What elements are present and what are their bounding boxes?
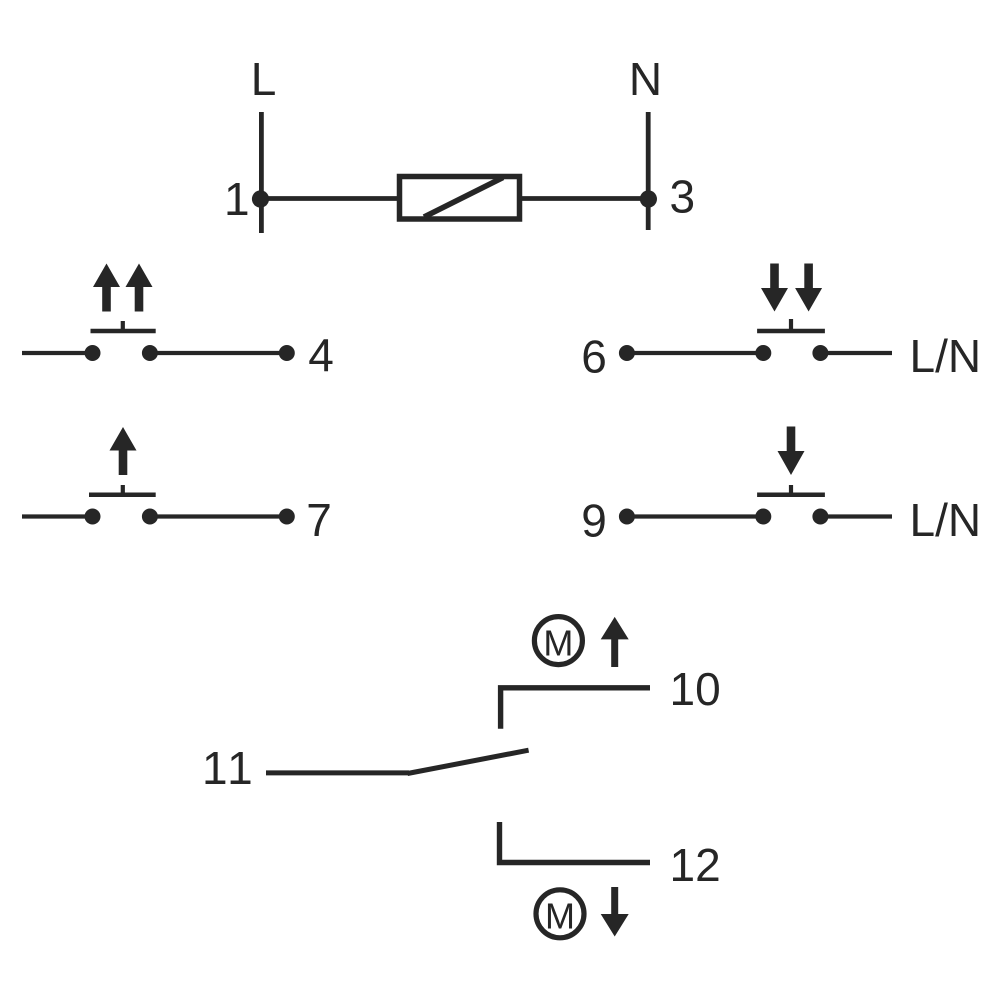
svg-text:N: N — [629, 53, 662, 105]
switch contact dot left (row 6) — [755, 345, 771, 361]
push-button actuator tick (row 4) — [121, 321, 125, 331]
svg-text:11: 11 — [202, 742, 256, 794]
motor M2 circle (down) — [536, 890, 584, 938]
svg-text:L/N: L/N — [910, 494, 982, 546]
svg-text:M: M — [543, 623, 573, 664]
svg-text:6: 6 — [581, 331, 607, 383]
terminal 9 dot — [619, 509, 635, 525]
up arrow (row 7) — [110, 427, 137, 475]
push-button actuator bar (row 7) — [89, 492, 156, 497]
push-button actuator bar (row 6) — [757, 329, 825, 334]
wire node1 to box — [260, 196, 398, 201]
down arrow 1 (row 6) — [761, 264, 788, 312]
wire left edge to switch (row 7) — [22, 514, 92, 518]
wire switch to L/N (row 9) — [820, 514, 892, 518]
svg-text:7: 7 — [306, 494, 332, 546]
svg-text:M: M — [545, 896, 575, 937]
wire left edge to switch (row 4) — [22, 351, 92, 355]
svg-text:4: 4 — [308, 329, 334, 381]
svg-text:3: 3 — [670, 171, 696, 223]
fuse/timer box F1 — [400, 177, 520, 220]
up arrow 1 (row 4) — [93, 264, 120, 312]
svg-text:9: 9 — [581, 495, 607, 547]
node 3 junction dot — [640, 190, 657, 207]
svg-text:L/N: L/N — [910, 330, 982, 382]
terminal 7 dot — [279, 509, 295, 525]
down arrow 2 (row 6) — [795, 264, 822, 312]
wire box to node3 — [521, 196, 649, 201]
switch contact dot left (row 7) — [85, 509, 101, 525]
wire switch to L/N (row 6) — [820, 351, 892, 355]
node 1 junction dot — [252, 190, 269, 207]
switch contact dot right (row 7) — [142, 509, 158, 525]
terminal 11 wire — [266, 770, 409, 775]
push-button actuator bar (row 9) — [757, 492, 825, 497]
up arrow (motor up) — [601, 617, 629, 667]
fuse/timer box diagonal — [424, 178, 503, 218]
wire N vertical — [646, 112, 651, 230]
motor M1 circle (up) — [534, 617, 582, 665]
wire terminal 6 to switch — [627, 351, 763, 355]
push-button actuator tick (row 6) — [789, 319, 793, 331]
terminal 12 wire elbow — [500, 822, 651, 863]
switch contact dot right (row 4) — [142, 345, 158, 361]
svg-text:12: 12 — [670, 839, 721, 891]
switch contact dot left (row 9) — [755, 509, 771, 525]
terminal 4 dot — [279, 345, 295, 361]
wire L vertical — [259, 112, 264, 233]
wire switch to terminal 4 — [150, 351, 287, 355]
down arrow (motor down) — [601, 887, 629, 937]
switch contact dot right (row 6) — [812, 345, 828, 361]
terminal 6 dot — [619, 345, 635, 361]
push-button actuator tick (row 7) — [121, 485, 125, 495]
switch blade (common 11) — [408, 750, 529, 773]
svg-text:L: L — [251, 53, 277, 105]
terminal 10 wire elbow — [501, 688, 650, 729]
svg-text:1: 1 — [224, 173, 250, 225]
wire switch to terminal 7 — [150, 514, 287, 518]
switch contact dot left (row 4) — [85, 345, 101, 361]
push-button actuator bar (row 4) — [91, 329, 156, 334]
wire terminal 9 to switch — [627, 514, 763, 518]
up arrow 2 (row 4) — [126, 264, 153, 312]
svg-text:10: 10 — [670, 663, 721, 715]
push-button actuator tick (row 9) — [789, 485, 793, 495]
switch contact dot right (row 9) — [812, 509, 828, 525]
down arrow (row 9) — [778, 427, 805, 476]
